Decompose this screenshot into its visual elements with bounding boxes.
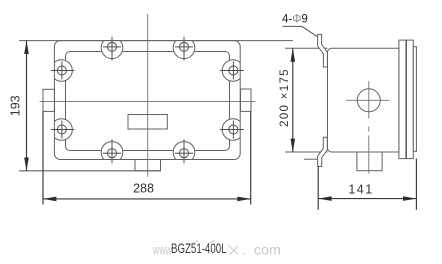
svg-text:com: com (254, 243, 281, 258)
svg-text:200 ×175: 200 ×175 (279, 68, 291, 127)
svg-text:www: www (152, 243, 172, 258)
svg-text:.: . (243, 243, 247, 258)
svg-text:193: 193 (8, 95, 22, 116)
svg-text:141: 141 (348, 182, 373, 196)
svg-text:288: 288 (133, 181, 154, 195)
svg-text:4-Φ9: 4-Φ9 (282, 14, 308, 26)
svg-text:BGZ51-400L: BGZ51-400L (171, 241, 227, 256)
